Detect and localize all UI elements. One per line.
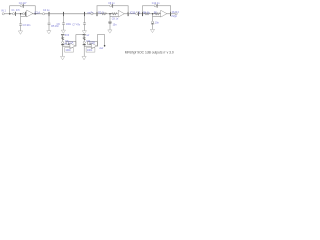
wire feedback riser 2 [127, 6, 129, 14]
wire drop at 49 [48, 14, 50, 31]
capacitor C10 [136, 13, 138, 15]
wire drop at 84.5 [84, 14, 86, 31]
resistor R2 [101, 13, 106, 15]
svg-text:C12 1n: C12 1n [152, 2, 160, 5]
ground [108, 30, 112, 33]
wire into op-amp [117, 13, 118, 15]
capacitor C5 plates [48, 22, 50, 24]
wire +inB [84, 45, 91, 47]
ground [19, 31, 23, 34]
svg-text:3V3: 3V3 [65, 34, 70, 37]
capacitor C8 plates [109, 21, 112, 23]
capacitor C1 [13, 13, 15, 15]
svg-text:C8 1n: C8 1n [112, 18, 119, 21]
wire [4, 13, 12, 15]
svg-text:2Vpp: 2Vpp [171, 15, 177, 18]
node C junction bar [63, 12, 65, 15]
op-amp IC2A [70, 43, 75, 49]
node -inB junction [89, 44, 90, 45]
wire output A [75, 45, 76, 47]
node A junction [9, 13, 11, 15]
node X2 junction [109, 13, 111, 15]
ground cell A [61, 56, 65, 59]
svg-text:IC2B: IC2B [90, 41, 96, 44]
svg-text:C4 1u: C4 1u [43, 9, 50, 12]
node B end junction [104, 45, 106, 47]
ground [62, 30, 66, 33]
ground [83, 31, 87, 34]
capacitor C9 on loop 2 [110, 5, 112, 7]
svg-text:R4 1k: R4 1k [143, 12, 150, 15]
node -inA junction [68, 44, 69, 45]
svg-text:100n: 100n [65, 49, 71, 52]
svg-text:IC1A: IC1A [35, 12, 41, 15]
node B top junction [83, 34, 85, 36]
wire X3 down [152, 16, 154, 29]
wire feedback B [88, 41, 98, 46]
node E junction bar [142, 12, 144, 15]
svg-text:ref: ref [86, 34, 89, 37]
wire output B [96, 45, 97, 47]
svg-text:MFBhpf 9OC 1dB outputs rr v 3.: MFBhpf 9OC 1dB outputs rr v 3.0 [125, 51, 174, 55]
ground cell B [82, 56, 86, 59]
wire [16, 13, 23, 15]
wire feedback left leg [9, 6, 11, 14]
wire divider B [83, 35, 85, 56]
wire [139, 13, 144, 15]
capacitor CB [83, 41, 85, 43]
wire output U1A [33, 13, 49, 15]
capacitor C6 plates [62, 22, 64, 24]
wire output U1C [167, 13, 175, 15]
svg-text:100n: 100n [66, 23, 72, 26]
op-amp U1B [118, 11, 124, 18]
wire feedback riser 3 [170, 6, 172, 14]
wire bus [49, 13, 91, 15]
resistor R6 vertical [62, 37, 64, 40]
svg-text:C9 1n: C9 1n [108, 2, 115, 5]
svg-text:C6: C6 [57, 23, 61, 26]
svg-text:C1: C1 [12, 9, 16, 12]
node E2 junction bar [84, 12, 86, 15]
node IN port [2, 13, 4, 15]
node midB junction [83, 44, 85, 46]
ground [151, 29, 155, 32]
wire stage2 [93, 13, 101, 15]
svg-text:vref: vref [99, 47, 103, 50]
wire stub +input 2 [110, 14, 118, 17]
svg-text:IC1B: IC1B [130, 12, 136, 15]
svg-text:IN 1: IN 1 [1, 10, 6, 13]
wire A out riser to B top [76, 35, 84, 47]
node X1 junction [20, 13, 22, 15]
capacitor C4 [43, 13, 45, 15]
wire [107, 13, 112, 15]
wire into op-amp 3 [159, 13, 162, 15]
wire +inA [63, 45, 70, 47]
node out junction bar [170, 12, 172, 15]
svg-text:10n: 10n [113, 24, 118, 27]
node D junction bar [96, 12, 98, 15]
ground [47, 31, 51, 34]
op-amp IC2B [91, 43, 96, 49]
op-amp U1C [161, 11, 167, 18]
supply bar cell A [61, 34, 64, 36]
svg-text:C2 4n7: C2 4n7 [19, 2, 27, 5]
capacitor C3 plates [19, 23, 21, 25]
wire output U1B [124, 13, 136, 15]
svg-text:10n: 10n [155, 22, 160, 25]
capacitor C2f on top loop [20, 5, 22, 7]
wire feedback left leg 2 [96, 6, 98, 13]
value box A [65, 48, 74, 52]
capacitor C7 [91, 13, 93, 15]
capacitor C2 [23, 13, 25, 15]
wire feedback left leg 3 [142, 6, 144, 13]
svg-text:C3 10n: C3 10n [23, 24, 31, 27]
wire feedback top [10, 5, 36, 7]
capacitor C6b plates [83, 22, 85, 24]
node out1 junction [34, 13, 36, 15]
wire feedback A: up over [66, 41, 76, 46]
wire B out riser [97, 35, 104, 47]
wire divider A [62, 35, 64, 56]
node midA junction [62, 44, 64, 46]
svg-text:OUT 2: OUT 2 [172, 11, 180, 14]
node out2 junction bar [127, 12, 129, 15]
svg-text:47n: 47n [16, 9, 21, 12]
resistor R3 [112, 13, 117, 15]
op-amp U1A [27, 10, 33, 17]
capacitor CA [62, 41, 64, 43]
wire feedback riser [34, 6, 36, 14]
wire feedback top 3 [143, 5, 171, 7]
node B junction bar [48, 12, 50, 15]
wire X2 down [109, 16, 111, 29]
svg-text:C7 47n: C7 47n [72, 24, 80, 27]
node OUT port [175, 13, 177, 15]
svg-text:100n: 100n [87, 49, 93, 52]
capacitor C11 [152, 21, 154, 23]
wire stub to +input [21, 14, 27, 16]
capacitor C12 on loop 3 [154, 5, 156, 7]
resistor R5 [155, 13, 160, 15]
wire node X1 down [20, 16, 22, 30]
svg-text:IC2A: IC2A [68, 41, 74, 44]
node X3 junction [152, 13, 154, 15]
resistor R4 [144, 13, 149, 15]
resistor R7 vertical [83, 37, 85, 40]
value box B [86, 48, 95, 52]
wire drop at 63.5 [63, 14, 65, 30]
wire feedback top 2 [97, 5, 128, 7]
wire [150, 13, 155, 15]
wire stub +input 3 [153, 14, 161, 17]
